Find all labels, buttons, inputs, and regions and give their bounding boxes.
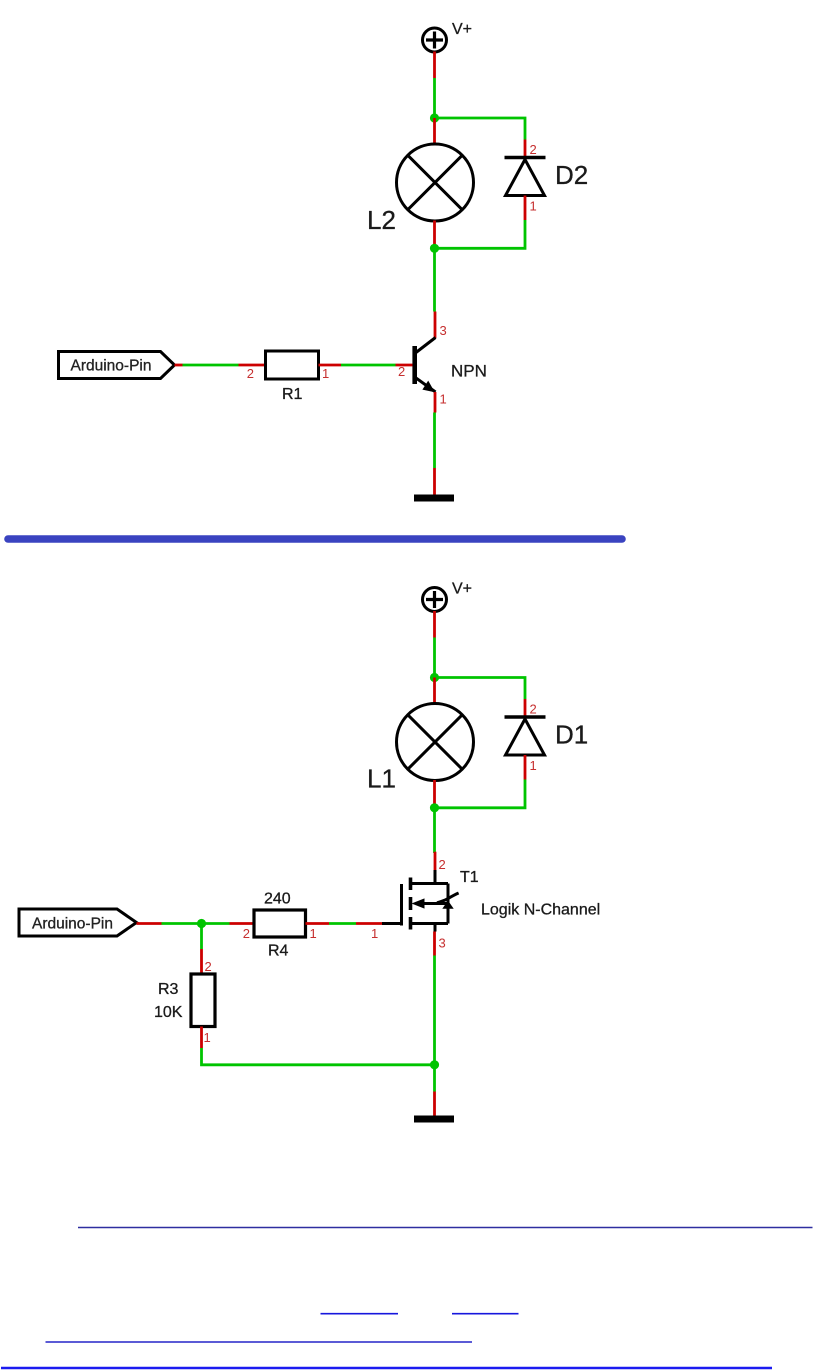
svg-text:2: 2 — [247, 366, 254, 381]
svg-text:2: 2 — [530, 702, 537, 717]
wire: lamp L1 bottom pin (red) — [433, 780, 436, 808]
lamp L1 — [367, 704, 474, 794]
connector: Arduino-Pin (bottom circuit) — [19, 909, 137, 936]
wire: R3 to bottom node (green) — [202, 1048, 435, 1065]
svg-text:1: 1 — [371, 926, 378, 941]
wire: D2 pin 1 (red) — [524, 196, 527, 221]
svg-text:2: 2 — [439, 857, 446, 872]
svg-text:R4: R4 — [268, 943, 289, 960]
svg-text:V+: V+ — [452, 21, 472, 38]
svg-text:NPN: NPN — [451, 362, 487, 381]
transistor Q1 NPN — [398, 323, 487, 407]
lamp L2 — [367, 144, 474, 235]
wire: source to bottom node (green) — [433, 956, 436, 1065]
power symbol V+ (top circuit) — [423, 21, 473, 52]
svg-text:L1: L1 — [367, 764, 396, 794]
svg-text:3: 3 — [440, 323, 447, 338]
wire: R1 to base (green) — [341, 364, 396, 367]
svg-text:3: 3 — [439, 936, 446, 951]
wire: R1 pin 1 (red) — [319, 364, 342, 367]
node junction bottom (L2/D2/collector) — [430, 244, 439, 253]
diode D2 — [505, 142, 589, 214]
wire: D1 bottom to node (green) — [435, 780, 526, 808]
svg-text:10K: 10K — [154, 1004, 183, 1021]
wire: R3 pin 1 (red) — [200, 1027, 203, 1049]
rule line bottom — [1, 1367, 772, 1369]
wire: drain pin 2 (red) — [434, 852, 437, 870]
wire: D2 pin 2 (red) — [524, 140, 527, 158]
svg-text:1: 1 — [530, 758, 537, 773]
wire: R1 pin 2 (red) — [239, 364, 266, 367]
diode D1 — [505, 702, 589, 774]
svg-text:Arduino-Pin: Arduino-Pin — [71, 358, 152, 375]
svg-text:R1: R1 — [282, 386, 303, 403]
node junction top (L1/D1/V+) — [430, 673, 439, 682]
wire: base pin 2 (red) — [396, 364, 413, 367]
resistor R4 — [243, 891, 317, 960]
svg-text:1: 1 — [440, 392, 447, 407]
wire: emitter to ground (green) — [433, 413, 436, 469]
svg-text:R3: R3 — [158, 981, 179, 998]
link underline c — [46, 1341, 473, 1343]
wire: ground pin (red) — [433, 468, 436, 495]
svg-text:2: 2 — [205, 959, 212, 974]
wire: V+ to node (green) — [433, 78, 436, 118]
wire: D2 bottom to node (green) — [435, 220, 526, 248]
power symbol V+ (bottom circuit) — [423, 581, 473, 612]
wire: lamp L2 top pin (red) — [433, 118, 436, 145]
wire: V+ pin (red) — [433, 611, 436, 638]
wire: ground pin (red) — [433, 1092, 436, 1117]
wire: connector pin (red) — [175, 364, 183, 367]
wire: connector pin (red) — [137, 922, 162, 925]
wire: connector to gate node (green) — [162, 922, 230, 925]
wire: node to D1 top (green) — [435, 678, 526, 700]
wire: connector to R1 (green) — [183, 364, 239, 367]
node junction gate/R3/R4 — [197, 919, 206, 928]
connector: Arduino-Pin (top circuit) — [59, 352, 175, 379]
wire: node to drain (green) — [433, 808, 436, 853]
resistor R1 — [247, 351, 329, 403]
link underline b — [452, 1313, 519, 1315]
wire: R4 pin 1 (red) — [306, 922, 330, 925]
transistor T1 N-channel MOSFET — [371, 857, 600, 951]
wire: D1 pin 1 (red) — [524, 755, 527, 780]
wire: R3 pin 2 (red) — [200, 949, 203, 974]
svg-text:2: 2 — [243, 926, 250, 941]
wire: collector pin 3 (red) — [434, 312, 437, 339]
link underline a — [321, 1313, 399, 1315]
wire: source pin 3 (red) — [433, 932, 436, 956]
wire: node to collector (green) — [433, 248, 436, 311]
wire: D1 pin 2 (red) — [524, 699, 527, 717]
wire: V+ pin (red) — [433, 52, 436, 79]
svg-text:240: 240 — [264, 891, 291, 908]
wire: node to R3 (green) — [200, 924, 203, 950]
wire: gate pin 1 (red) — [356, 922, 382, 925]
svg-text:Arduino-Pin: Arduino-Pin — [32, 916, 113, 933]
svg-text:D1: D1 — [555, 720, 588, 750]
svg-text:1: 1 — [204, 1030, 211, 1045]
wire: R4 to gate (green) — [329, 922, 356, 925]
svg-text:1: 1 — [530, 199, 537, 214]
svg-text:1: 1 — [322, 366, 329, 381]
wire: R4 pin 2 (red) — [230, 922, 255, 925]
svg-text:T1: T1 — [460, 869, 479, 886]
svg-text:L2: L2 — [367, 205, 396, 235]
wire: node to D2 top (green) — [435, 118, 526, 140]
wire: V+ to node (green) — [433, 638, 436, 678]
svg-text:1: 1 — [310, 926, 317, 941]
resistor R3 — [154, 959, 215, 1045]
wire: lamp L2 bottom pin (red) — [433, 221, 436, 249]
ground (bottom circuit) — [414, 1116, 454, 1123]
node junction top (L2/D2/V+) — [430, 113, 439, 122]
svg-text:D2: D2 — [555, 160, 588, 190]
svg-text:V+: V+ — [452, 581, 472, 598]
wire: emitter pin 1 (red) — [434, 392, 437, 413]
wire: gate lead (black) — [382, 922, 402, 925]
svg-text:Logik N-Channel: Logik N-Channel — [481, 902, 600, 919]
ground (top circuit) — [414, 495, 454, 502]
node junction bottom (source/R3/ground) — [430, 1060, 439, 1069]
wire: lamp L1 top pin (red) — [433, 678, 436, 705]
node junction bottom (L1/D1/drain) — [430, 803, 439, 812]
section divider bar — [8, 535, 622, 543]
rule line 1 — [78, 1227, 813, 1229]
wire: bottom node to ground (green) — [433, 1065, 436, 1092]
svg-text:2: 2 — [530, 142, 537, 157]
